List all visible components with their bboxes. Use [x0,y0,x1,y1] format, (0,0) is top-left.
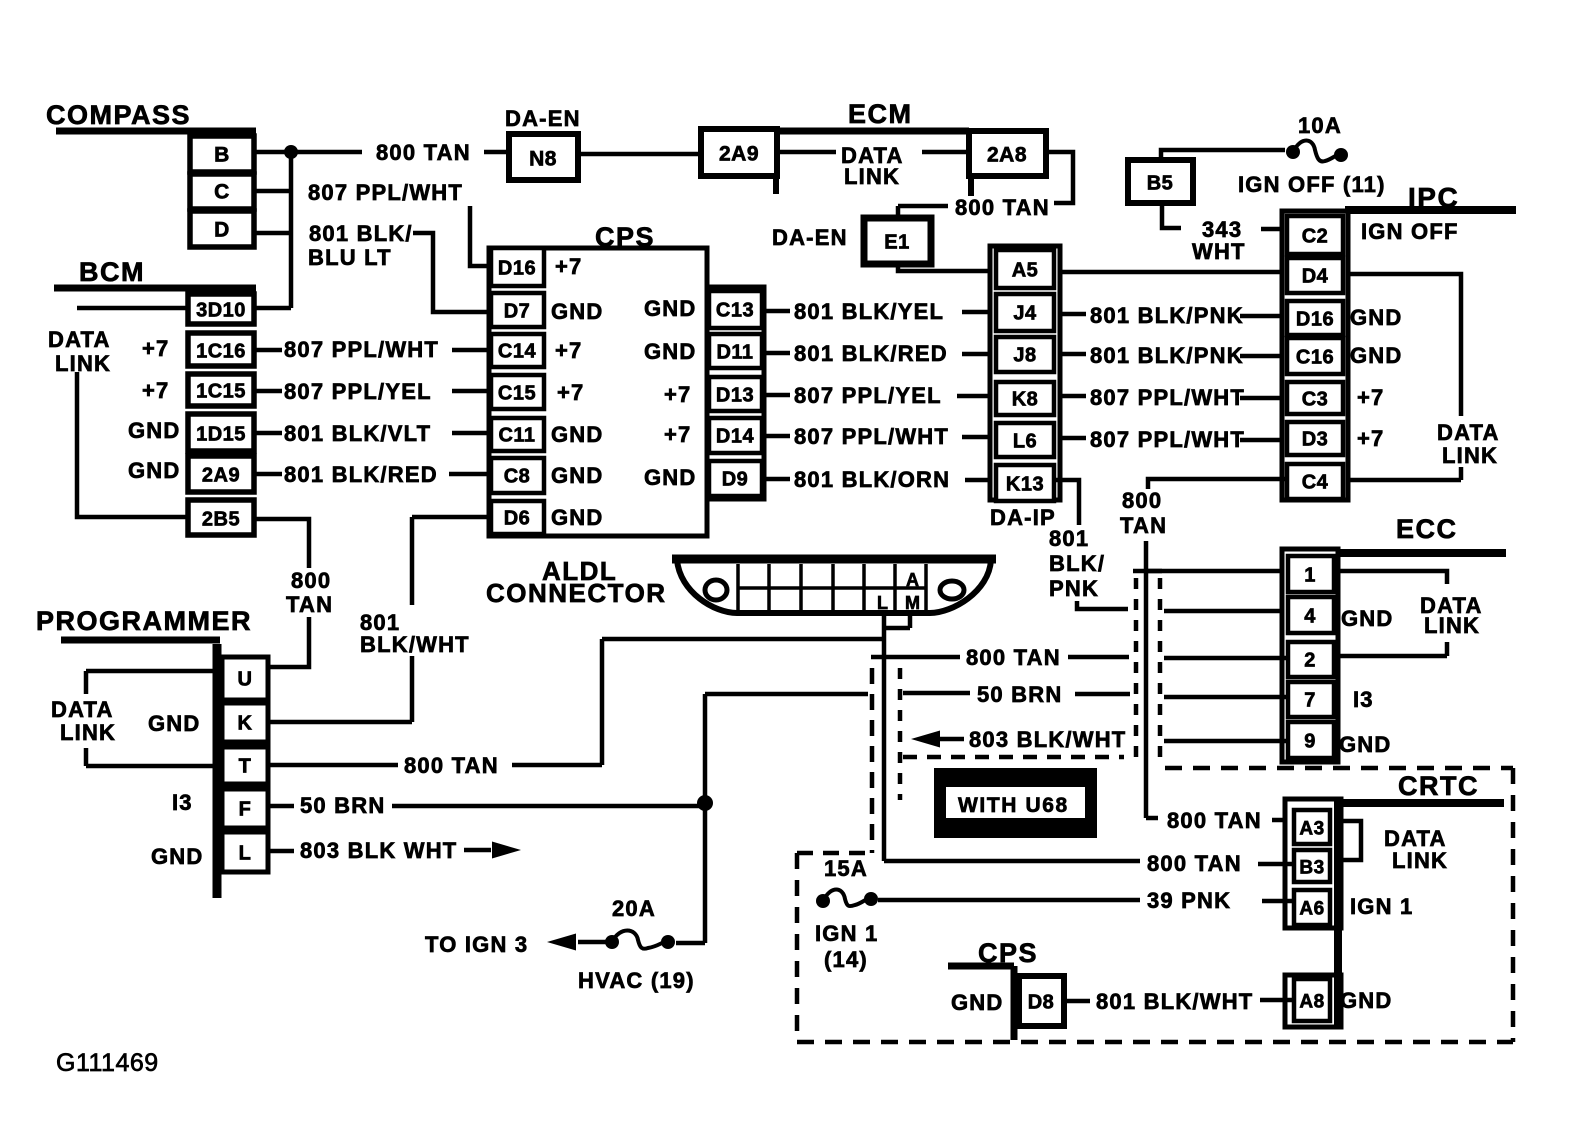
svg-text:+7: +7 [555,338,582,363]
svg-text:C15: C15 [498,383,536,405]
svg-text:D9: D9 [722,469,749,491]
svg-text:A3: A3 [1299,819,1324,840]
svg-text:D11: D11 [716,342,753,364]
svg-text:10A: 10A [1298,113,1342,138]
svg-text:B: B [214,144,230,167]
svg-text:800 TAN: 800 TAN [955,195,1050,220]
svg-text:D4: D4 [1302,266,1329,288]
svg-text:GND: GND [551,505,604,530]
svg-text:GND: GND [551,422,604,447]
svg-text:DA-EN: DA-EN [505,106,581,131]
svg-text:9: 9 [1304,731,1316,753]
svg-text:801 BLK/WHT: 801 BLK/WHT [1096,989,1253,1014]
svg-text:D16: D16 [498,258,536,280]
svg-text:2B5: 2B5 [202,509,240,531]
svg-text:L: L [239,843,252,865]
svg-text:GND: GND [128,418,181,443]
svg-text:807 PPL/WHT: 807 PPL/WHT [1090,427,1245,452]
svg-text:C16: C16 [1296,347,1334,369]
svg-text:4: 4 [1304,606,1316,628]
svg-text:A5: A5 [1012,260,1039,282]
svg-text:D: D [214,219,230,242]
svg-text:39 PNK: 39 PNK [1147,888,1231,913]
svg-text:801 BLK/ORN: 801 BLK/ORN [794,467,950,492]
svg-text:2A9: 2A9 [719,143,759,166]
svg-text:807 PPL/WHT: 807 PPL/WHT [794,424,949,449]
svg-text:(14): (14) [824,947,868,972]
svg-text:GND: GND [128,458,181,483]
svg-text:807 PPL/WHT: 807 PPL/WHT [284,337,439,362]
svg-text:GND: GND [1350,305,1403,330]
svg-text:D6: D6 [504,508,531,530]
svg-text:800 TAN: 800 TAN [376,140,471,165]
svg-text:TAN: TAN [286,592,333,617]
svg-text:K8: K8 [1012,389,1039,411]
svg-text:801 BLK/: 801 BLK/ [309,221,413,246]
svg-text:1: 1 [1304,565,1316,587]
svg-text:GND: GND [644,339,697,364]
svg-text:BLK/WHT: BLK/WHT [360,632,470,657]
svg-text:2A9: 2A9 [202,465,240,487]
svg-text:LINK: LINK [55,351,111,376]
svg-text:800 TAN: 800 TAN [966,645,1061,670]
svg-text:+7: +7 [142,336,169,361]
svg-text:PNK: PNK [1049,576,1099,601]
svg-text:M: M [905,593,920,613]
svg-text:+7: +7 [664,422,691,447]
svg-text:K13: K13 [1006,474,1044,496]
svg-text:A8: A8 [1299,992,1324,1013]
svg-text:C13: C13 [716,300,754,322]
svg-text:803 BLK WHT: 803 BLK WHT [300,838,457,863]
svg-text:801 BLK/YEL: 801 BLK/YEL [794,299,944,324]
svg-text:BLU LT: BLU LT [308,245,392,270]
svg-text:IGN 1: IGN 1 [1350,894,1413,919]
svg-text:GND: GND [1340,988,1393,1013]
svg-text:ECM: ECM [848,99,913,129]
svg-text:U: U [238,669,253,691]
svg-text:2A8: 2A8 [987,144,1027,167]
svg-text:801 BLK/PNK: 801 BLK/PNK [1090,303,1244,328]
svg-text:DA-IP: DA-IP [990,505,1056,530]
svg-text:WITH U68: WITH U68 [958,794,1069,817]
svg-text:807 PPL/YEL: 807 PPL/YEL [284,379,432,404]
svg-text:801 BLK/RED: 801 BLK/RED [794,341,948,366]
svg-text:C2: C2 [1302,226,1329,248]
svg-text:ECC: ECC [1396,514,1458,544]
svg-text:D7: D7 [504,301,531,323]
svg-text:PROGRAMMER: PROGRAMMER [36,606,252,636]
svg-text:D3: D3 [1302,429,1329,451]
svg-text:DATA: DATA [51,697,114,722]
svg-text:800 TAN: 800 TAN [404,753,499,778]
svg-text:800: 800 [1122,488,1162,513]
svg-text:15A: 15A [824,856,868,881]
svg-text:GND: GND [551,299,604,324]
svg-text:IGN OFF (11): IGN OFF (11) [1238,172,1386,197]
svg-text:F: F [239,799,252,821]
svg-text:D16: D16 [1296,309,1334,331]
svg-text:I3: I3 [1353,687,1374,712]
svg-text:1C16: 1C16 [196,341,246,363]
svg-text:BCM: BCM [79,257,145,287]
svg-text:LINK: LINK [1392,848,1448,873]
svg-text:GND: GND [1341,606,1394,631]
svg-text:C4: C4 [1302,472,1329,494]
svg-text:+7: +7 [664,382,691,407]
svg-text:807 PPL/WHT: 807 PPL/WHT [308,180,463,205]
svg-text:50 BRN: 50 BRN [977,682,1062,707]
svg-text:J8: J8 [1013,345,1036,367]
svg-text:DATA: DATA [48,327,111,352]
svg-text:L: L [877,593,888,613]
svg-text:807 PPL/YEL: 807 PPL/YEL [794,383,942,408]
svg-text:3D10: 3D10 [196,300,246,322]
svg-text:D14: D14 [716,426,755,448]
svg-text:LINK: LINK [844,164,900,189]
svg-text:IGN 1: IGN 1 [815,921,878,946]
svg-text:I3: I3 [172,790,193,815]
svg-text:50 BRN: 50 BRN [300,793,385,818]
svg-text:A6: A6 [1299,899,1324,920]
svg-text:+7: +7 [142,378,169,403]
svg-text:GND: GND [644,465,697,490]
svg-text:GND: GND [1350,343,1403,368]
svg-text:DATA: DATA [1437,420,1500,445]
svg-text:GND: GND [551,463,604,488]
svg-text:C8: C8 [504,466,531,488]
svg-text:+7: +7 [555,254,582,279]
svg-text:801 BLK/PNK: 801 BLK/PNK [1090,343,1244,368]
svg-text:LINK: LINK [1442,443,1498,468]
svg-text:CONNECTOR: CONNECTOR [486,578,667,608]
svg-text:GND: GND [148,711,201,736]
svg-text:GND: GND [1339,732,1392,757]
svg-text:COMPASS: COMPASS [46,100,191,130]
svg-text:+7: +7 [557,380,584,405]
svg-text:800: 800 [291,568,331,593]
svg-text:1D15: 1D15 [196,424,246,446]
svg-text:HVAC (19): HVAC (19) [578,968,695,993]
svg-text:C11: C11 [498,425,535,447]
svg-text:GND: GND [151,844,204,869]
svg-text:+7: +7 [1357,385,1384,410]
svg-text:1C15: 1C15 [196,381,246,403]
svg-text:J4: J4 [1013,303,1037,325]
svg-text:B5: B5 [1147,173,1174,195]
svg-text:+7: +7 [1357,426,1384,451]
svg-text:20A: 20A [612,896,656,921]
svg-text:801 BLK/VLT: 801 BLK/VLT [284,421,431,446]
svg-text:WHT: WHT [1192,239,1246,264]
svg-text:G111469: G111469 [56,1049,159,1077]
svg-text:807 PPL/WHT: 807 PPL/WHT [1090,385,1245,410]
svg-text:7: 7 [1304,690,1316,712]
svg-text:GND: GND [644,296,697,321]
svg-text:N8: N8 [529,148,557,171]
svg-text:801 BLK/RED: 801 BLK/RED [284,462,438,487]
svg-text:T: T [239,756,252,778]
svg-text:D13: D13 [716,385,754,407]
svg-text:803 BLK/WHT: 803 BLK/WHT [969,727,1126,752]
svg-text:TAN: TAN [1120,513,1167,538]
svg-text:BLK/: BLK/ [1049,551,1105,576]
svg-text:DA-EN: DA-EN [772,225,848,250]
svg-text:LINK: LINK [60,720,116,745]
svg-text:CRTC: CRTC [1398,771,1479,801]
svg-text:LINK: LINK [1424,613,1480,638]
svg-text:IGN OFF: IGN OFF [1361,219,1459,244]
svg-text:K: K [238,713,253,735]
svg-text:L6: L6 [1013,431,1037,453]
svg-text:2: 2 [1304,650,1316,672]
svg-text:C3: C3 [1302,389,1329,411]
svg-text:800 TAN: 800 TAN [1147,851,1242,876]
svg-text:D8: D8 [1028,992,1055,1014]
svg-text:800 TAN: 800 TAN [1167,808,1262,833]
svg-text:B3: B3 [1299,858,1324,879]
svg-text:801: 801 [1049,526,1089,551]
svg-text:A: A [906,570,919,590]
svg-text:E1: E1 [884,232,909,254]
svg-text:C14: C14 [498,341,537,363]
svg-text:TO IGN 3: TO IGN 3 [425,932,528,957]
svg-text:C: C [214,181,230,204]
svg-text:GND: GND [951,990,1004,1015]
